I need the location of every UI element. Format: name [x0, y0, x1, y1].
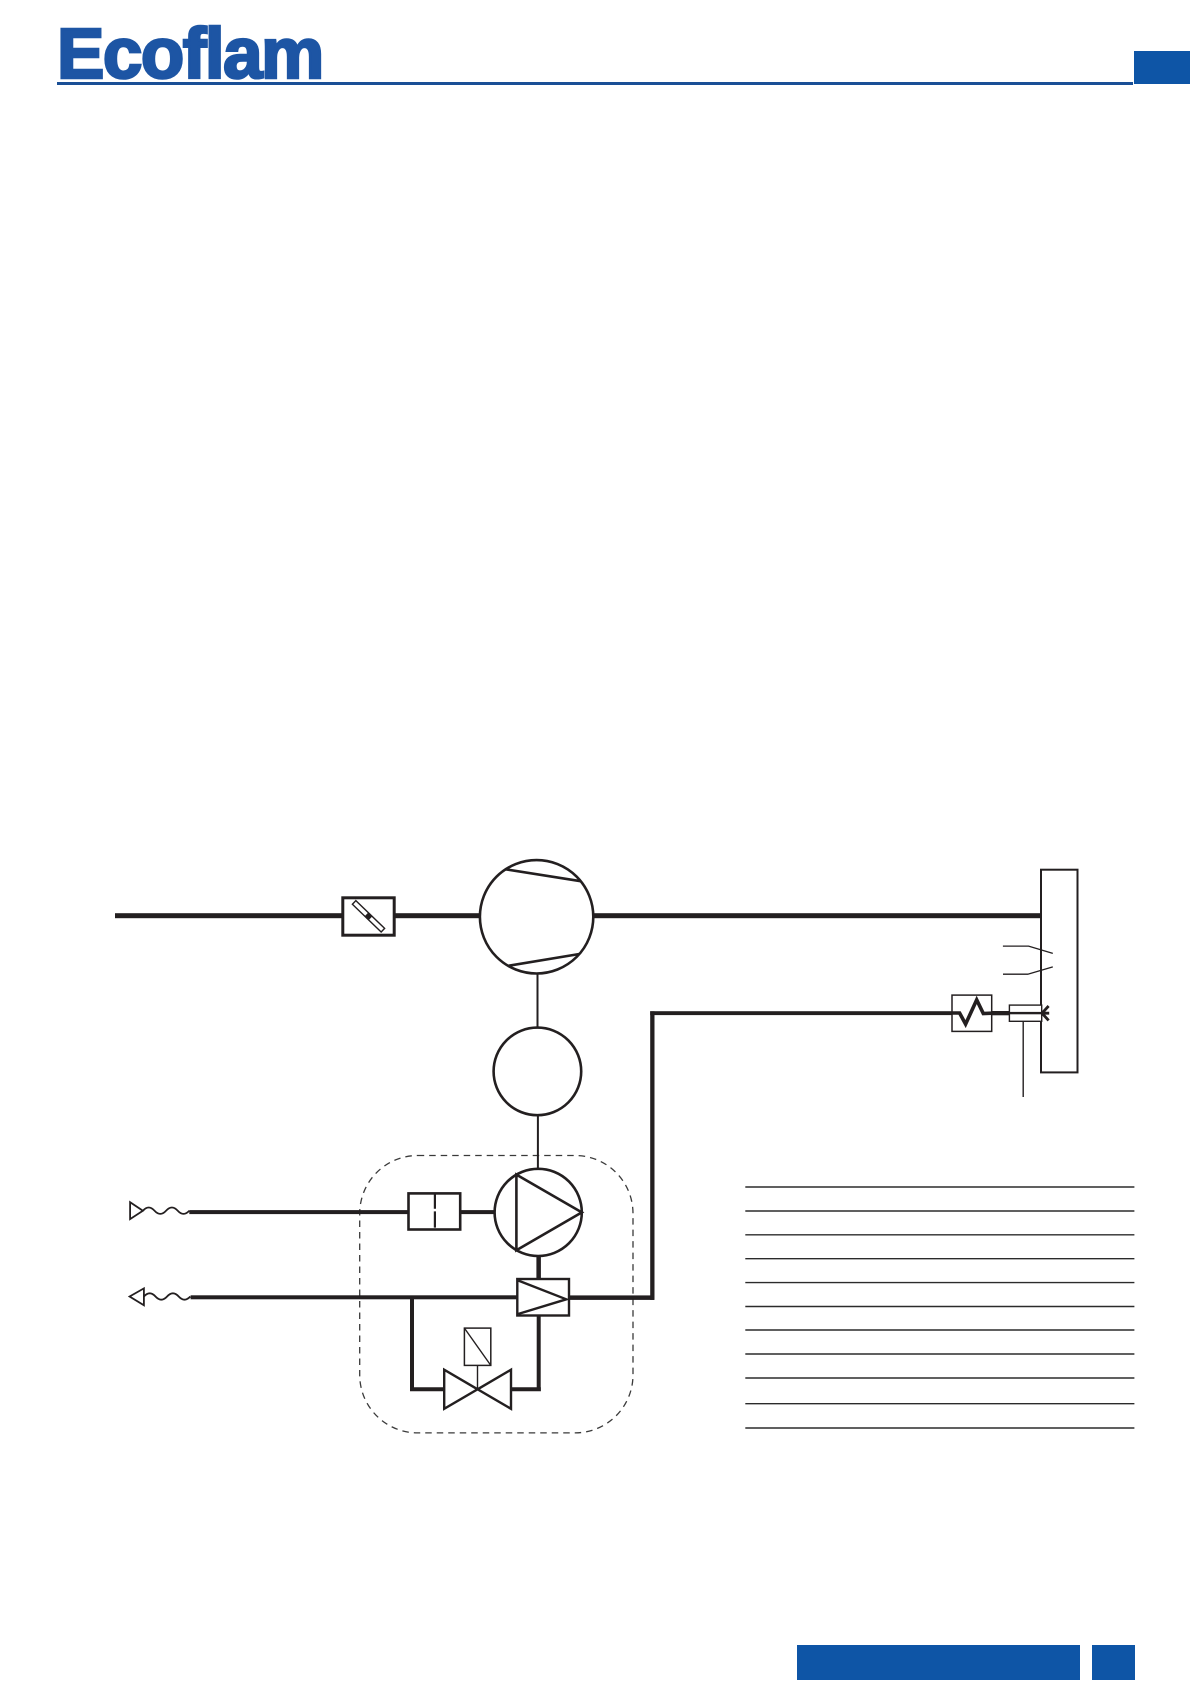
footer square	[1092, 1645, 1135, 1680]
air line damper to fan	[394, 913, 480, 918]
bypass valve right triangle	[478, 1370, 511, 1409]
air damper flap	[352, 900, 385, 932]
suction arrow	[130, 1202, 143, 1219]
header rule	[57, 82, 1133, 85]
notes rule 9	[745, 1377, 1134, 1379]
notes rule 6	[745, 1306, 1134, 1308]
bypass right leg	[511, 1316, 541, 1392]
filter to pump line	[460, 1210, 494, 1214]
pump circle	[495, 1169, 582, 1256]
notes rule 5	[745, 1282, 1134, 1284]
bypass valve left triangle	[444, 1370, 477, 1409]
return arrow	[130, 1288, 144, 1305]
solenoid diagonal	[464, 1328, 490, 1365]
return line	[191, 1295, 518, 1299]
notes rule 3	[745, 1234, 1134, 1236]
suction line	[189, 1210, 408, 1214]
fan blade chords	[506, 869, 581, 966]
oil preheater box	[952, 995, 992, 1031]
pressure regulator triangle	[519, 1281, 567, 1314]
motor-pump link	[537, 1115, 539, 1169]
oil filter box	[409, 1193, 461, 1229]
boiler wall	[1041, 870, 1078, 1073]
ignition electrode upper	[1003, 946, 1053, 953]
footer bar	[797, 1645, 1080, 1680]
return flex hose	[144, 1293, 190, 1299]
nozzle spray	[1042, 1006, 1049, 1020]
notes rule 8	[745, 1353, 1134, 1355]
air intake line	[115, 913, 343, 918]
nozzle sensor line	[1022, 1022, 1024, 1097]
Ecoflam logo	[57, 14, 323, 95]
motor circle	[494, 1028, 582, 1116]
pressure line to riser	[569, 1295, 654, 1300]
notes rule 7	[745, 1329, 1134, 1331]
air damper box	[343, 898, 394, 935]
ignition electrode lower	[1003, 967, 1053, 974]
notes rule 10	[745, 1403, 1134, 1405]
nozzle middle line	[1009, 1012, 1042, 1014]
fan-motor shaft link	[537, 973, 539, 1027]
oil preheater zigzag	[952, 1000, 992, 1024]
nozzle feed line	[650, 1011, 952, 1015]
bypass left leg	[410, 1296, 444, 1392]
notes rule 2	[745, 1210, 1134, 1212]
pressure regulator box	[517, 1279, 569, 1316]
filter element dashed	[434, 1194, 436, 1227]
unit boundary dashed box	[360, 1156, 633, 1433]
preheater to nozzle line	[992, 1011, 1010, 1015]
air line fan to boiler	[593, 913, 1041, 918]
pressure riser	[650, 1011, 654, 1300]
notes rule 4	[745, 1258, 1134, 1260]
pump triangle	[516, 1175, 581, 1251]
suction flex hose	[143, 1208, 189, 1214]
notes rule 1	[745, 1186, 1134, 1188]
nozzle body	[1009, 1005, 1041, 1021]
fan circle	[480, 860, 593, 973]
header tab	[1134, 51, 1190, 85]
solenoid stem	[477, 1365, 479, 1389]
solenoid box	[464, 1328, 490, 1365]
notes rule 11	[745, 1427, 1134, 1429]
pump outlet line	[536, 1256, 541, 1279]
